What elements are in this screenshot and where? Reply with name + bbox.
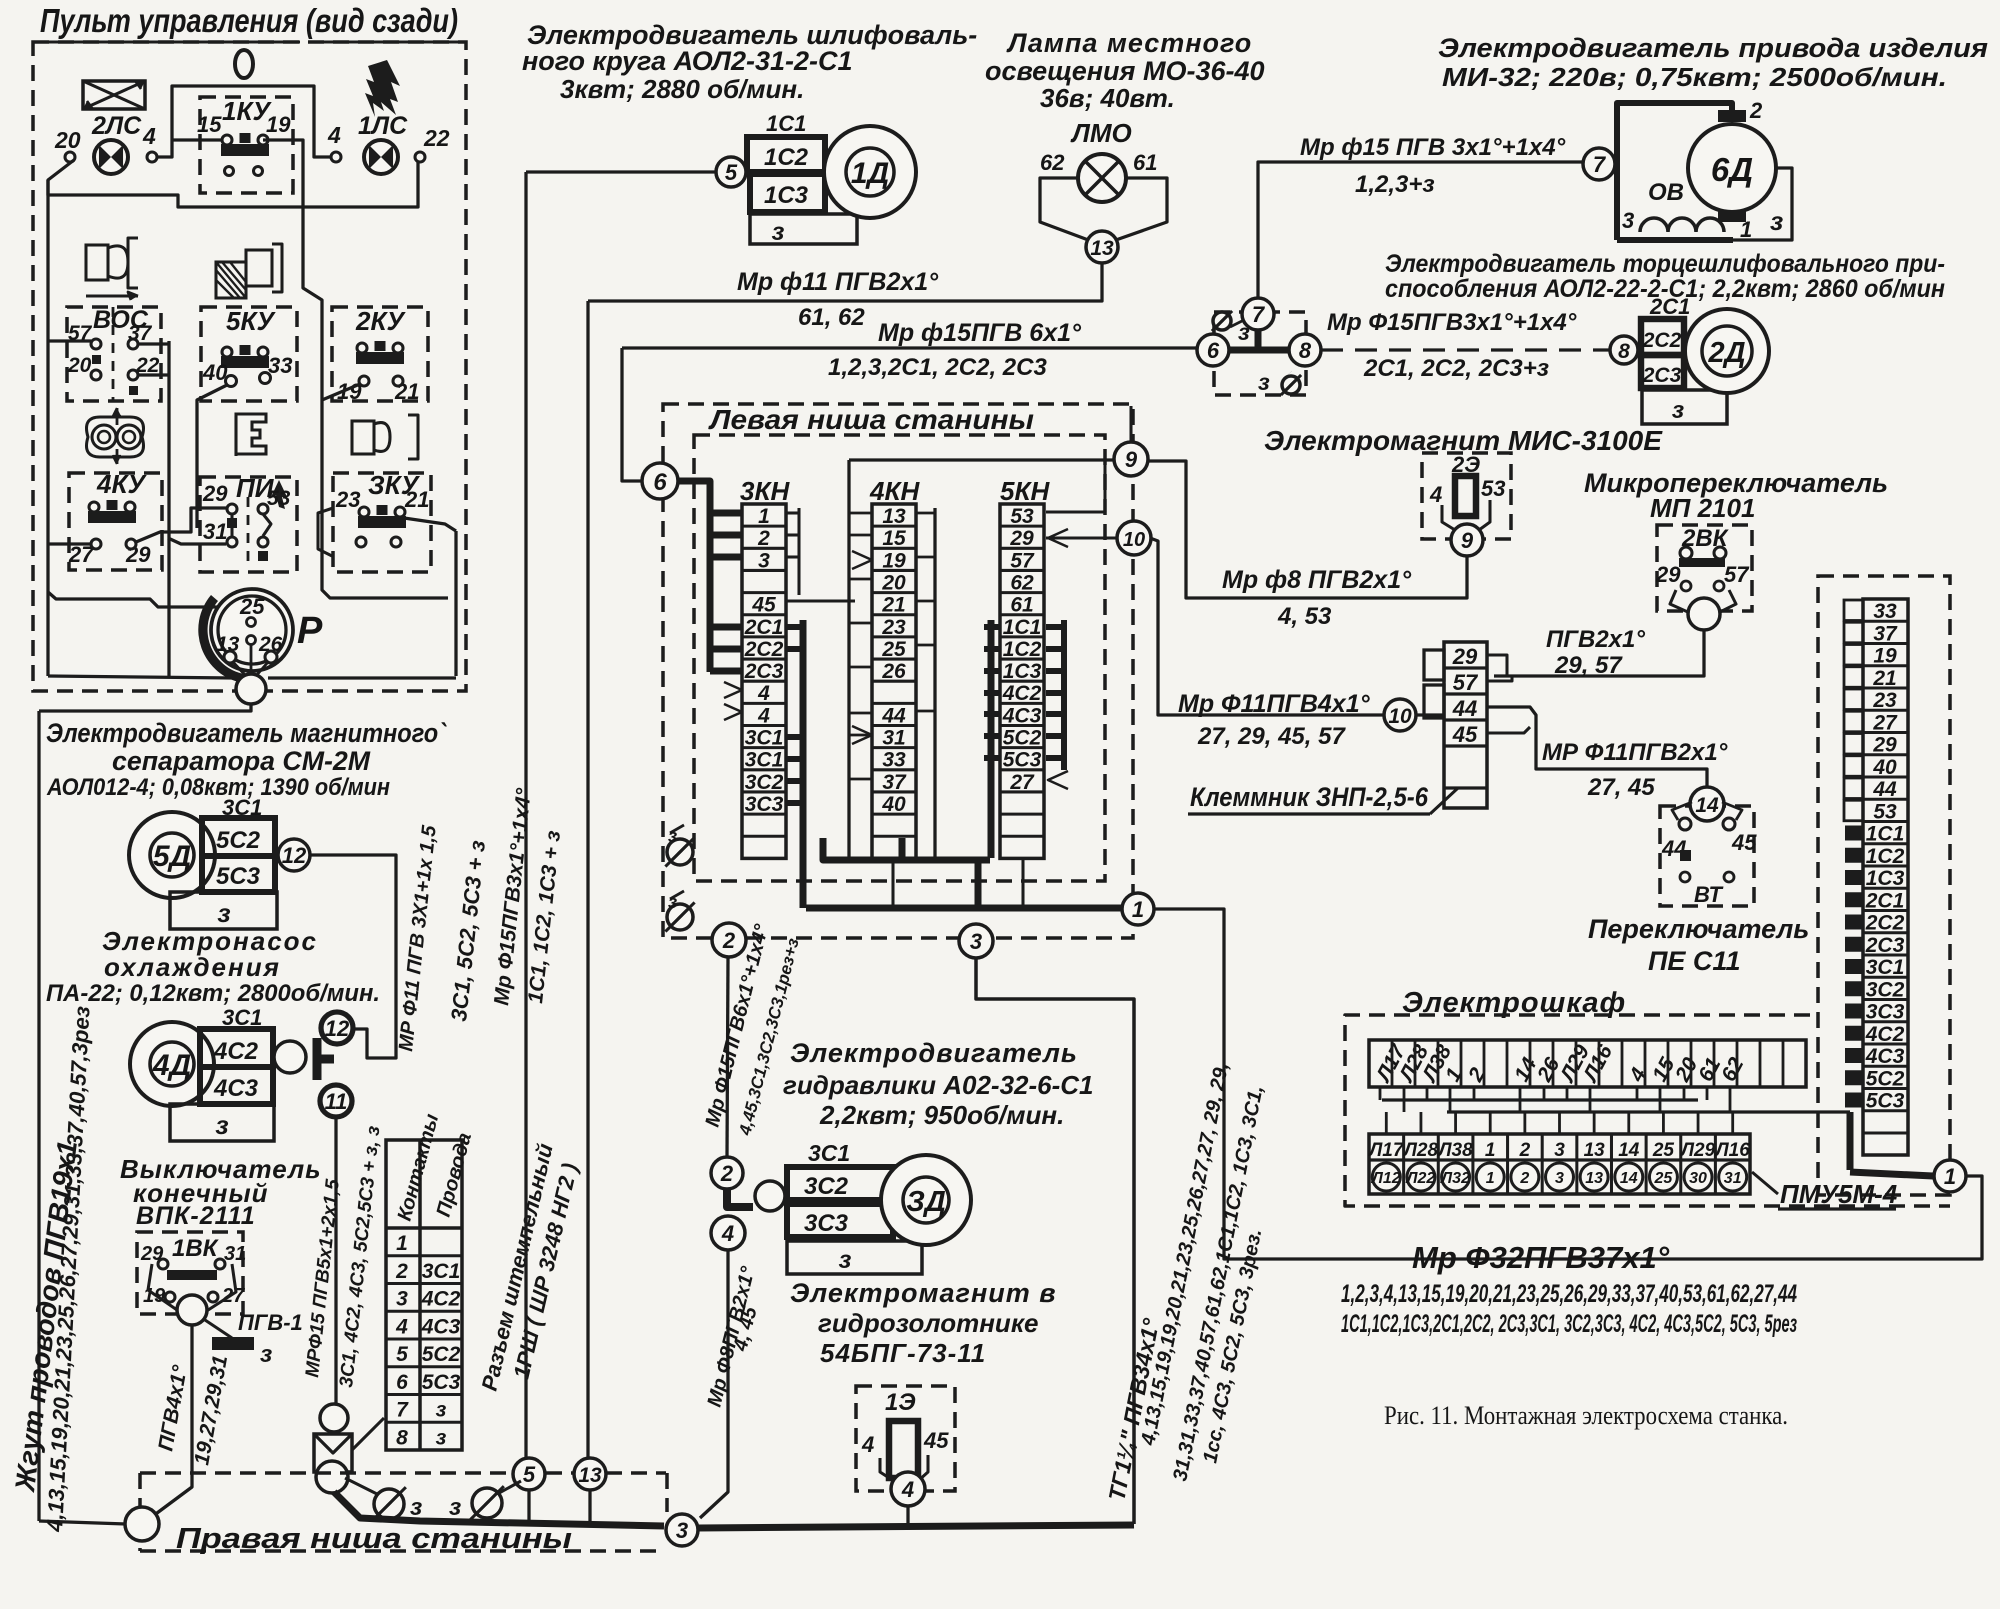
ПИ pin 31 [203, 518, 237, 547]
svg-text:з: з [839, 1246, 852, 1274]
svg-text:1: 1 [1740, 217, 1752, 242]
1Д box з [750, 214, 857, 246]
wire splice8 dashed [1321, 348, 1610, 351]
wire ВПК drop [153, 1325, 192, 1516]
wire 3КН feed (thick) [676, 481, 710, 672]
svg-text:2С2: 2С2 [744, 638, 784, 661]
svg-text:Электродвигатель: Электродвигатель [790, 1038, 1078, 1068]
svg-text:40: 40 [881, 793, 906, 816]
svg-text:МИ-32; 220в; 0,75квт; 2500: МИ-32; 220в; 0,75квт; 2500об/мин. [1442, 62, 1947, 92]
svg-text:4: 4 [395, 1315, 408, 1338]
face grinder title [1385, 250, 1945, 303]
pushbutton 2КУ contacts [356, 341, 404, 364]
svg-text:33: 33 [268, 353, 292, 378]
svg-text:2: 2 [722, 928, 736, 953]
svg-text:4С3: 4С3 [421, 1315, 461, 1338]
svg-text:3: 3 [676, 1518, 688, 1543]
cable label 1,2,3,2С1,2С2,2С3 [828, 354, 1047, 381]
cable label 1С1 1С2 1С3 з [524, 829, 565, 1004]
svg-text:1: 1 [1486, 1170, 1495, 1187]
wire ЗНП node10 [1416, 713, 1444, 716]
svg-text:4: 4 [327, 122, 341, 148]
svg-text:з: з [772, 218, 785, 246]
svg-text:Электромагнит в: Электромагнит в [790, 1278, 1057, 1308]
svg-text:20: 20 [881, 571, 906, 594]
svg-text:з: з [215, 1110, 228, 1140]
svg-text:Л29: Л29 [1679, 1140, 1716, 1161]
svg-text:45: 45 [1731, 830, 1757, 855]
svg-text:27, 29, 45, 57: 27, 29, 45, 57 [1197, 723, 1346, 750]
cable label МР Ф11ПГВ2х1 [1542, 739, 1728, 766]
node chain junction [316, 1461, 348, 1493]
svg-text:25: 25 [881, 638, 906, 661]
cabinet box [1345, 1015, 1950, 1206]
svg-text:61: 61 [1010, 594, 1033, 617]
svg-text:5: 5 [396, 1343, 408, 1366]
svg-text:ПМУ5М-4: ПМУ5М-4 [1780, 1179, 1898, 1209]
cable label Мр ф15ПГВ 6х1 [878, 319, 1082, 347]
svg-text:Пульт управления (вид сзади): Пульт управления (вид сзади) [40, 2, 458, 39]
svg-text:2С2: 2С2 [1642, 329, 1682, 352]
ПЕ pin 45 [1723, 818, 1757, 855]
1ВК pin 29 [140, 1243, 168, 1269]
cable label 1,2,3+з [1355, 171, 1435, 198]
svg-text:Мр Ф11ПГВ4х1°: Мр Ф11ПГВ4х1° [1178, 690, 1371, 718]
cabinet top terminal row [1369, 1040, 1806, 1087]
svg-text:9: 9 [1125, 447, 1138, 472]
4Д box 4С3 [200, 1067, 273, 1104]
2ВК pin 57 [1724, 562, 1750, 587]
1КУ pin 15 [197, 112, 222, 137]
terminal strip (right, cabinet) [1844, 599, 1908, 1155]
motor 6Д [1688, 124, 1776, 212]
node 4 (1Э) [891, 1472, 925, 1506]
cable label ПГВ4х1 [154, 1363, 192, 1453]
ВОС pin 20 [67, 354, 101, 380]
ЛМО pin 61 [1133, 150, 1157, 175]
svg-text:1: 1 [1485, 1140, 1496, 1161]
wire 1Э bracket [880, 1455, 928, 1481]
svg-text:Мр ф15ПГВ 6х1°: Мр ф15ПГВ 6х1° [878, 319, 1082, 347]
3Д box з [787, 1241, 922, 1274]
svg-text:Л16: Л16 [1714, 1140, 1751, 1161]
node 9 stub [1129, 406, 1132, 442]
left niche outer box [663, 404, 1133, 938]
svg-text:57: 57 [1010, 549, 1035, 572]
cable label 4,53 [1277, 603, 1332, 630]
1ВК pin 27 [208, 1285, 245, 1307]
pushbutton 5КУ contacts [221, 345, 269, 368]
svg-text:Л17: Л17 [1367, 1140, 1405, 1161]
ПЕ pin 44 [1661, 818, 1691, 861]
ТГ wire list 3 [1199, 1227, 1266, 1465]
svg-text:Мр ф11 ПГВ2х1°: Мр ф11 ПГВ2х1° [737, 268, 939, 296]
svg-text:2: 2 [1519, 1140, 1531, 1161]
node 6 (splice) [1197, 334, 1229, 366]
svg-text:10: 10 [1123, 529, 1145, 551]
svg-text:29: 29 [1452, 644, 1478, 669]
Р pin 25 [239, 594, 265, 627]
svg-text:33: 33 [1873, 600, 1897, 623]
svg-text:1КУ: 1КУ [222, 96, 272, 126]
wire splice7 up [1258, 162, 1583, 298]
pushbutton ЗКУ contacts [356, 505, 406, 547]
right strip box [1818, 576, 1950, 1195]
right niche title [176, 1523, 572, 1555]
ground з (niche 2) [665, 891, 694, 932]
svg-text:27, 45: 27, 45 [1587, 774, 1655, 801]
svg-text:19: 19 [882, 549, 906, 572]
node 10 (niche) [1117, 521, 1151, 555]
wire 44-45 cable [1487, 707, 1707, 788]
svg-text:Мр ф8 ПГВ2х1°: Мр ф8 ПГВ2х1° [1222, 566, 1412, 594]
terminal 4 (1ЛС) [327, 122, 341, 162]
6Д frame [1617, 103, 1732, 240]
switch ПЕ title [1588, 914, 1809, 976]
svg-text:19: 19 [266, 112, 291, 137]
svg-text:23: 23 [1872, 689, 1897, 712]
terminal strip 4КН [869, 476, 920, 858]
2ВК contacts [1679, 547, 1726, 567]
icon 2КУ grinding wheel [352, 415, 418, 459]
wire 1Д to riser [526, 170, 716, 173]
svg-text:4, 53: 4, 53 [1277, 603, 1332, 630]
svg-text:1С2: 1С2 [1003, 638, 1042, 661]
node 9 (МИС) [1451, 524, 1483, 556]
svg-text:3С1: 3С1 [808, 1140, 850, 1166]
4КУ pin 27 [68, 539, 101, 567]
svg-text:ВТ: ВТ [1694, 882, 1724, 907]
1Э pin 4 [861, 1432, 874, 1457]
svg-text:4С3: 4С3 [213, 1075, 259, 1102]
pushbutton 5КУ box [201, 306, 297, 401]
cable label Мр ф15 ПГВ 3х1+1х4 (6Д) [1300, 134, 1566, 161]
4Д box з [170, 1104, 274, 1141]
electromagnet 2Э coil [1455, 476, 1476, 516]
pushbutton 2КУ box [332, 306, 428, 401]
2Д terminal label 2С1 [1649, 294, 1690, 319]
cable label Мр ф11 ПГВ2х1 [737, 268, 939, 296]
node 3 (bottom) [666, 1514, 698, 1546]
cable label 27,29,45,57 [1197, 723, 1346, 750]
svg-text:4: 4 [861, 1432, 874, 1457]
cable label 61 62 [798, 304, 865, 331]
svg-text:1: 1 [1944, 1164, 1956, 1189]
solenoid 1Э coil [889, 1421, 918, 1478]
svg-text:5: 5 [523, 1462, 536, 1487]
svg-text:3С3: 3С3 [1866, 1001, 1905, 1024]
electromagnet 2Э box [1422, 452, 1511, 539]
svg-text:4: 4 [757, 682, 770, 705]
svg-text:53: 53 [1873, 800, 1897, 823]
svg-text:8: 8 [396, 1426, 408, 1449]
svg-text:3: 3 [1554, 1140, 1565, 1161]
wire ЗКУ to riser [404, 518, 456, 531]
svg-text:62: 62 [1040, 150, 1065, 175]
wire ВОС37 links [138, 341, 169, 676]
svg-text:1С3: 1С3 [764, 182, 809, 209]
svg-text:53: 53 [1010, 505, 1034, 528]
connector pin table [386, 1140, 462, 1450]
left niche inner box [694, 435, 1105, 881]
svg-text:1ЛС: 1ЛС [358, 112, 408, 140]
lamp 2ЛС label [91, 112, 142, 140]
svg-text:Мр ф15 ПГВ 3х1°+1х4°: Мр ф15 ПГВ 3х1°+1х4° [1300, 134, 1566, 161]
wire 5КН left stubs [984, 620, 1000, 858]
svg-text:2ЛС: 2ЛС [91, 112, 142, 140]
table header Провода [433, 1130, 477, 1219]
wire pult bottom bus [48, 676, 456, 678]
svg-text:Рис. 11. Монтажная электрос: Рис. 11. Монтажная электросхема станка. [1384, 1401, 1788, 1430]
connector Р crescent [198, 595, 244, 683]
svg-text:1С1: 1С1 [1866, 823, 1905, 846]
wire 6Д loop [1733, 168, 1792, 240]
selector ПИ box [200, 473, 297, 572]
svg-text:з: з [1770, 206, 1783, 236]
svg-text:44: 44 [1452, 696, 1477, 721]
svg-text:3КН: 3КН [740, 476, 790, 506]
svg-text:4: 4 [142, 123, 156, 149]
2ВК lower contacts [1681, 581, 1724, 591]
svg-text:4С2: 4С2 [1002, 682, 1042, 705]
svg-text:МР Ф11ПГВ2х1°: МР Ф11ПГВ2х1° [1542, 739, 1728, 766]
node 13 (ЛМО) [1086, 231, 1118, 263]
svg-text:5: 5 [725, 160, 738, 185]
wire 5Д cable [310, 855, 396, 1058]
svg-text:12: 12 [325, 1016, 350, 1041]
svg-text:29: 29 [1009, 527, 1034, 550]
pushbutton 4КУ box [69, 469, 162, 570]
svg-text:4Д: 4Д [152, 1049, 191, 1082]
wire 4КУ27 stub [48, 542, 91, 545]
svg-text:25: 25 [239, 594, 265, 619]
bracket marks [724, 529, 1068, 789]
wire node10 cable [1150, 538, 1384, 715]
main cable wires line2 [1341, 1310, 1797, 1338]
svg-text:сепаратора СМ-2М: сепаратора СМ-2М [112, 746, 370, 776]
2Э pin 4 [1429, 482, 1442, 507]
svg-text:57: 57 [1453, 670, 1479, 695]
svg-text:1Д: 1Д [851, 157, 889, 190]
svg-text:13: 13 [882, 505, 906, 528]
wire 2ВК bracket [1670, 590, 1736, 613]
pushbutton 1КУ box [200, 96, 293, 193]
control panel title [38, 2, 458, 42]
wire 5КУ40 down [197, 385, 227, 528]
svg-text:4С2: 4С2 [213, 1038, 259, 1065]
6Д pin 1 [1718, 210, 1752, 242]
svg-text:1С1,1С2,1С3,2С1,2С2, 2С3,3С1,: 1С1,1С2,1С3,2С1,2С2, 2С3,3С1, 3С2,3С3, 4… [1341, 1310, 1797, 1338]
ПМУ5М-4 label [1752, 1172, 1898, 1209]
wire cable 6x1 [622, 348, 1197, 481]
svg-text:6: 6 [396, 1371, 408, 1394]
svg-text:4: 4 [1429, 482, 1442, 507]
wire МП cable [1494, 630, 1704, 676]
wire 3КН 45 link [786, 599, 855, 602]
ground з (right niche 2) [449, 1481, 521, 1521]
microswitch 2ВК box [1657, 525, 1752, 611]
svg-text:37: 37 [1873, 622, 1898, 645]
svg-text:освещения МО-36-40: освещения МО-36-40 [985, 56, 1265, 86]
wire ЛМО bracket [1040, 178, 1167, 241]
control panel enclosure box [33, 42, 466, 691]
svg-text:19: 19 [1873, 645, 1897, 668]
node 9 (niche) [1114, 442, 1148, 476]
svg-text:3С1: 3С1 [1866, 956, 1905, 979]
4КУ pin 29 [125, 539, 151, 567]
svg-text:31: 31 [224, 1243, 246, 1265]
svg-text:5С3: 5С3 [1003, 749, 1042, 772]
motor 2Д [1685, 309, 1769, 393]
2Д box з [1642, 390, 1727, 424]
svg-text:2Д: 2Д [1707, 337, 1745, 369]
1ВК pin 31 [215, 1243, 246, 1269]
motor 5Д [129, 812, 215, 898]
lamp ЛМО label [1070, 118, 1132, 148]
wire ТГ run [976, 958, 1134, 1524]
svg-text:ного круга АОЛ2-31-2-С1: ного круга АОЛ2-31-2-С1 [522, 46, 853, 76]
svg-text:23: 23 [881, 616, 906, 639]
wire 5КН right stubs [1046, 620, 1064, 770]
node 14 (ПЕ) [1690, 787, 1724, 821]
svg-text:1,2,3+з: 1,2,3+з [1355, 171, 1435, 198]
svg-text:12: 12 [282, 843, 307, 868]
svg-text:1,2,3,2С1, 2С2, 2С3: 1,2,3,2С1, 2С2, 2С3 [828, 354, 1047, 381]
wire 3КН right stubs thin [786, 508, 799, 595]
cable label МРФ15 ПГВ5х1+2х1,5 [302, 1178, 344, 1379]
svg-text:14: 14 [1618, 1140, 1640, 1161]
cable label ТГ1 1/4 ПГВ34х1 [1103, 1316, 1164, 1503]
terminal strip 3КН [740, 476, 790, 858]
1КУ pin 19 [266, 112, 291, 137]
svg-text:5С2: 5С2 [1003, 727, 1042, 750]
svg-text:1: 1 [758, 505, 770, 528]
cabinet bus wiring [1380, 1087, 1850, 1134]
switch ВОС box [67, 306, 161, 401]
svg-text:гидравлики А02-32-6-С1: гидравлики А02-32-6-С1 [783, 1070, 1094, 1100]
svg-text:2: 2 [1749, 98, 1763, 123]
ВОС pin 37 [128, 322, 153, 349]
cable label Мр Ф8ПГВ2х1 (hydro) [704, 1264, 760, 1410]
5Д box з [170, 892, 277, 929]
connector label Разъем штемпельный [477, 1141, 558, 1393]
node 7 (6Д) [1583, 148, 1615, 180]
svg-text:14: 14 [1620, 1170, 1638, 1187]
wire 2КУ19 down [322, 384, 360, 400]
cable label 4,45 (hydro) [729, 1304, 762, 1354]
svg-text:охлаждения: охлаждения [104, 952, 281, 982]
svg-text:з: з [217, 898, 230, 928]
ЛМО pin 62 [1040, 150, 1065, 175]
svg-text:ЛМО: ЛМО [1070, 118, 1132, 148]
1Д box 1С2 [747, 137, 825, 172]
terminal block label [1188, 782, 1458, 814]
3Д terminal label 3С1 [808, 1140, 850, 1166]
svg-text:Переключатель: Переключатель [1588, 914, 1809, 944]
svg-text:61: 61 [1133, 150, 1157, 175]
wire 11 chain plug [314, 1404, 384, 1472]
harness label Жгут проводов ПГВ19х1 [9, 1139, 83, 1495]
wire 3КН left stubs [710, 513, 742, 671]
lamp 2ЛС [94, 140, 128, 174]
motor 4Д [130, 1022, 214, 1106]
svg-text:Электродвигатель магнитного`: Электродвигатель магнитного` [46, 718, 447, 748]
svg-text:ПА-22; 0,12квт; 2800об/мин.: ПА-22; 0,12квт; 2800об/мин. [46, 980, 380, 1007]
svg-text:4: 4 [721, 1221, 734, 1246]
switch ПЕ box [1660, 806, 1754, 906]
svg-text:40: 40 [1872, 756, 1897, 779]
icon wheel dresser [216, 244, 282, 298]
right niche box [140, 1473, 667, 1551]
2Э pin 53 [1481, 476, 1505, 501]
1Э pin 45 [923, 1428, 949, 1453]
cabinet title [1402, 987, 1626, 1019]
cable label 27,45 [1587, 774, 1655, 801]
ground з (splice top) [1212, 311, 1250, 345]
cable label ПГВ2х1 [1546, 626, 1645, 653]
2КУ pin 19 [337, 376, 369, 404]
svg-text:5С2: 5С2 [216, 827, 261, 854]
svg-text:14: 14 [1695, 794, 1719, 817]
cable label Мр ф8 ПГВ2х1 [1222, 566, 1412, 594]
node 8 (splice) [1289, 334, 1321, 366]
svg-text:57: 57 [1724, 562, 1750, 587]
wire 4КН thick drop [823, 838, 990, 908]
svg-text:4: 4 [901, 1477, 914, 1502]
6Д frame bottom [1617, 237, 1733, 243]
ПГВ-1 sleeve [205, 1320, 272, 1368]
svg-text:3квт; 2880 об/мин.: 3квт; 2880 об/мин. [560, 74, 804, 104]
wire right riser x456 [454, 531, 457, 676]
grinder motor title [522, 20, 977, 104]
wire Р pins to junction [233, 645, 268, 676]
node МП junction [1688, 598, 1720, 630]
ПИ contact chain [232, 514, 271, 561]
svg-text:1С2: 1С2 [764, 144, 809, 171]
6Д pin 2 [1718, 98, 1763, 123]
wire circuit 1 loop [1154, 909, 1982, 1259]
ТГ wire list 1 [1137, 1061, 1233, 1448]
pushbutton 4КУ contacts [88, 500, 136, 523]
svg-text:3С2: 3С2 [1866, 978, 1905, 1001]
wire 1Э drop [906, 1506, 909, 1524]
svg-text:Л22: Л22 [1406, 1170, 1436, 1187]
3Д tee [727, 1190, 753, 1207]
svg-text:Электродвигатель привода изде: Электродвигатель привода изделия [1438, 33, 1988, 63]
svg-text:4С3: 4С3 [1865, 1045, 1905, 1068]
svg-text:29: 29 [1872, 734, 1897, 757]
svg-text:2С3: 2С3 [744, 660, 784, 683]
svg-text:2С3: 2С3 [1865, 934, 1905, 957]
svg-text:3С1: 3С1 [422, 1260, 461, 1283]
wire 4КН left stubs [849, 513, 872, 779]
svg-text:21: 21 [404, 487, 429, 512]
svg-text:4: 4 [757, 704, 770, 727]
wire Р junction to left drop [39, 704, 251, 711]
6Д field coil ОВ [1640, 179, 1724, 232]
svg-text:2С1: 2С1 [1865, 889, 1905, 912]
wire 4КУ29 to ПИ [136, 508, 226, 544]
svg-text:6Д: 6Д [1711, 151, 1753, 188]
node 6 (niche) [642, 463, 678, 499]
Р pin 26 [247, 633, 283, 663]
svg-text:3С2: 3С2 [745, 771, 784, 794]
svg-text:5С2: 5С2 [422, 1343, 461, 1366]
svg-text:30: 30 [1689, 1170, 1707, 1187]
wire niche bottom bus thick [806, 905, 1122, 912]
connector label 1РШ (ШР 3248 НГ2) [509, 1161, 583, 1381]
pushbutton 1КУ contacts [221, 133, 269, 176]
